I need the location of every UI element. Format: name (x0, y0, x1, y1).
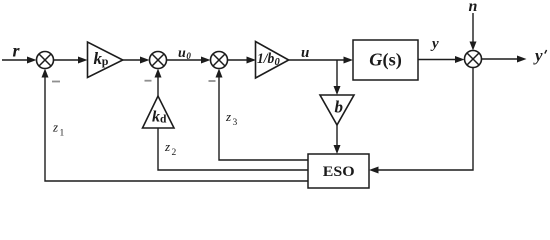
svg-text:u: u (178, 46, 186, 61)
svg-text:y: y (430, 36, 439, 52)
svg-text:z: z (164, 139, 170, 154)
svg-text:z: z (225, 109, 231, 124)
svg-text:3: 3 (233, 118, 238, 128)
svg-text:1/b: 1/b (257, 51, 275, 67)
svg-text:2: 2 (172, 148, 177, 158)
svg-text:0: 0 (275, 57, 281, 68)
svg-text:0: 0 (186, 51, 191, 61)
svg-text:k: k (152, 109, 160, 126)
svg-text:p: p (102, 54, 109, 68)
svg-text:b: b (335, 98, 344, 117)
svg-text:n: n (469, 0, 478, 15)
svg-text:z: z (52, 120, 58, 135)
svg-text:ESO: ESO (323, 164, 355, 180)
svg-text:d: d (160, 114, 167, 126)
svg-text:u: u (301, 45, 309, 61)
svg-text:y: y (533, 46, 543, 65)
svg-text:r: r (13, 41, 21, 61)
svg-text:1: 1 (60, 129, 65, 139)
svg-text:G(s): G(s) (369, 50, 402, 70)
